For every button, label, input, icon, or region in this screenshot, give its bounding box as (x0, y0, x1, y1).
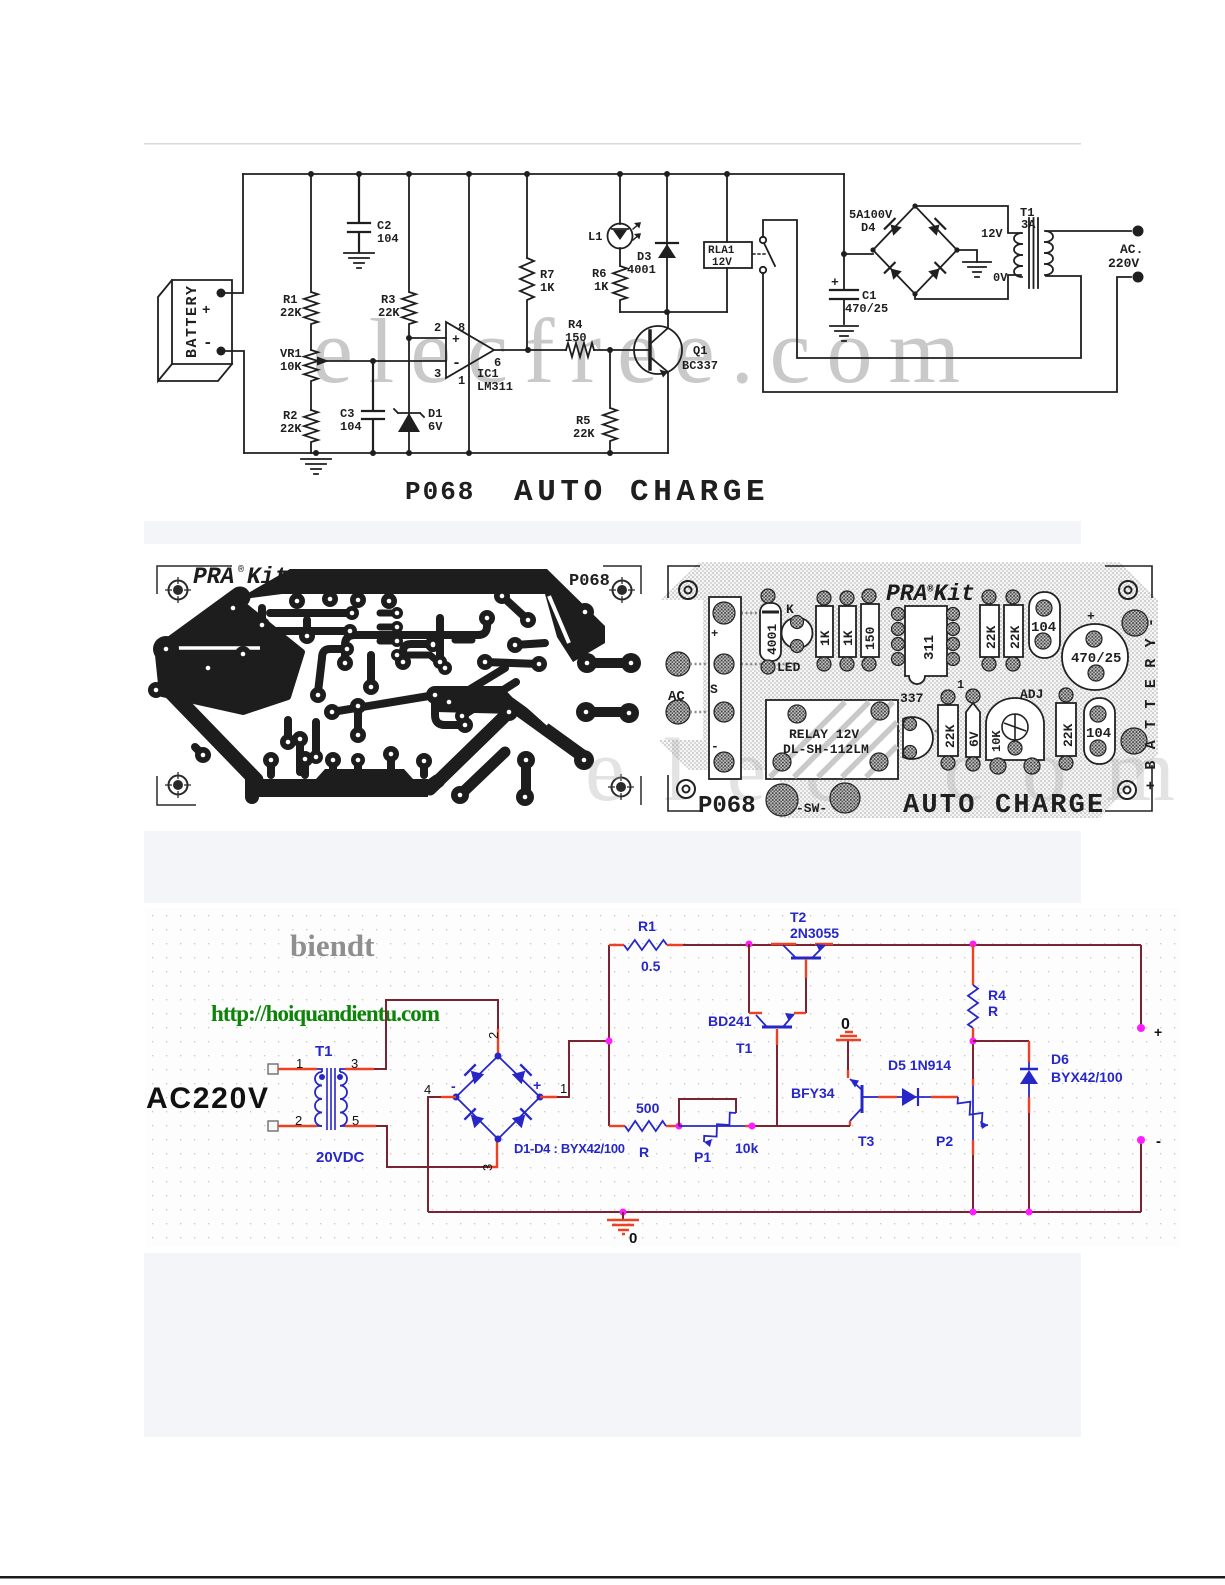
svg-text:BD241: BD241 (708, 1013, 752, 1029)
svg-text:-: - (203, 334, 213, 352)
svg-text:R2: R2 (283, 409, 297, 423)
resistor 1K b (839, 606, 856, 657)
wire pin1 (278, 1068, 317, 1070)
white slot in chevron (549, 596, 569, 643)
svg-text:10k: 10k (735, 1140, 759, 1156)
wire pin2 (278, 1125, 317, 1127)
wire bridge minus to ground rail (441, 1096, 456, 1098)
svg-text:R: R (639, 1144, 649, 1160)
svg-text:LED: LED (777, 660, 801, 675)
connector strip (709, 597, 741, 779)
faint separator line top of scan 1 (144, 143, 1081, 145)
svg-text:BYX42/100: BYX42/100 (1051, 1069, 1123, 1085)
svg-text:DL-SH-112LM: DL-SH-112LM (783, 742, 869, 757)
hatched copper pour (660, 562, 1158, 818)
white clearance line above blob (178, 646, 260, 650)
crosshair rings right PCB (679, 581, 697, 599)
svg-text:AUTO CHARGE: AUTO CHARGE (514, 475, 769, 510)
svg-text:+: + (711, 627, 718, 641)
svg-text:LM311: LM311 (477, 380, 513, 394)
svg-text:RLA1: RLA1 (708, 245, 735, 257)
svg-text:470/25: 470/25 (845, 302, 888, 316)
LED L1 (619, 174, 621, 224)
svg-text:22K: 22K (573, 427, 595, 441)
bottom page border line (0, 1576, 1225, 1579)
svg-text:-SW-: -SW- (796, 801, 827, 816)
wire bridge top to transformer 12V tap (915, 206, 1021, 233)
terminal square pin1 (268, 1064, 278, 1074)
svg-text:1: 1 (458, 374, 465, 388)
wire pin5 to bridge bottom (345, 1125, 376, 1127)
svg-text:D4: D4 (861, 221, 875, 235)
wire bridge plus to node (540, 1096, 557, 1098)
wire switch top to transformer secondary bottom (763, 220, 1081, 358)
svg-text:D1: D1 (428, 407, 442, 421)
capacitor 470/25 (1062, 624, 1128, 690)
copper trace elbows middle (345, 618, 487, 663)
AC pads (666, 652, 690, 676)
dotted grid background (145, 908, 1180, 1247)
svg-text:BATTERY: BATTERY (184, 286, 201, 358)
resistor R6 1K (613, 248, 627, 312)
capacitor C3 104 (362, 361, 384, 453)
svg-text:ADJ: ADJ (1020, 687, 1043, 702)
junction dots on top rail (308, 171, 314, 177)
potentiometer VR1 10K (304, 350, 318, 410)
battery pad top (1122, 610, 1148, 636)
svg-text:+: + (1087, 609, 1095, 624)
svg-text:T2: T2 (790, 909, 807, 925)
relay switch contact (753, 253, 765, 255)
battery (158, 280, 232, 381)
svg-text:5A100V: 5A100V (849, 208, 893, 222)
svg-text:+: + (533, 1077, 541, 1093)
svg-text:®: ® (238, 564, 244, 576)
svg-text:22K: 22K (378, 306, 400, 320)
diode 4001 (760, 603, 781, 661)
ground below C1 (830, 326, 858, 341)
svg-text:220V: 220V (1108, 256, 1139, 271)
diagonal dumbbell top right (502, 596, 528, 620)
svg-text:+: + (202, 303, 210, 319)
resistor R7 1K (520, 174, 534, 350)
svg-text:+BATTERY-: +BATTERY- (1143, 618, 1160, 790)
svg-text:104: 104 (340, 420, 362, 434)
svg-text:R6: R6 (592, 267, 606, 281)
IC pad cluster stubs (380, 613, 397, 641)
gray band between section2 and section3 (144, 831, 1081, 903)
svg-text:+: + (831, 275, 839, 290)
svg-text:VR1: VR1 (280, 347, 302, 361)
svg-text:BFY34: BFY34 (791, 1085, 835, 1101)
Q1 BC337 transistor (634, 326, 682, 374)
resistor R1 0.5 (609, 944, 624, 946)
svg-text:D1-D4 : BYX42/100: D1-D4 : BYX42/100 (514, 1141, 625, 1156)
gray band between section1 and section2 (144, 521, 1081, 544)
diode D3 4001 (666, 174, 668, 312)
svg-text:1K: 1K (594, 280, 609, 294)
resistor R3 22K (402, 174, 416, 338)
capacitor 104 bottom (1084, 698, 1115, 764)
transformer T1 (315, 1068, 347, 1130)
copper trace horizontal y663 (485, 662, 539, 664)
svg-text:P068: P068 (569, 572, 610, 591)
SW pads (766, 784, 798, 816)
svg-text:-: - (1156, 1133, 1161, 1150)
capacitor C2 104 (348, 174, 370, 252)
svg-text:R1: R1 (283, 293, 297, 307)
op-amp IC1 LM311 (446, 322, 494, 378)
svg-text:4001: 4001 (765, 624, 780, 655)
copper left blob (158, 606, 302, 712)
svg-text:PRA: PRA (193, 564, 234, 590)
svg-text:D5 1N914: D5 1N914 (888, 1057, 951, 1073)
bridge rectifier D4 5A100V (873, 206, 957, 294)
svg-text:6V: 6V (428, 420, 443, 434)
svg-text:S: S (710, 682, 718, 697)
IC 311 (905, 606, 947, 684)
bridge rectifier D1-D4 (456, 1056, 540, 1139)
svg-text:150: 150 (863, 626, 878, 650)
junction dots on bottom rail (313, 450, 319, 456)
wire battery minus to bottom rail (221, 351, 244, 453)
capacitor C1 470/25 electrolytic (843, 254, 845, 324)
svg-text:T1: T1 (315, 1043, 333, 1060)
337 transistor (903, 717, 933, 759)
svg-text:3: 3 (480, 1164, 495, 1171)
copper left lower diagonal band (166, 687, 256, 780)
wire R3 to opamp plus input (409, 337, 446, 339)
svg-text:P068: P068 (698, 793, 756, 820)
svg-text:150: 150 (565, 331, 587, 345)
copper bottom band (252, 769, 428, 797)
svg-text:470/25: 470/25 (1071, 651, 1121, 667)
ground below R2 (301, 459, 331, 474)
svg-text:1: 1 (296, 1056, 303, 1071)
svg-text:1K: 1K (841, 630, 856, 646)
copper central right mass (436, 686, 512, 714)
resistor 150 (861, 604, 879, 657)
svg-text:AC: AC (668, 689, 685, 705)
resistor 22K a (980, 605, 999, 657)
trimmer 10K (986, 698, 1044, 760)
svg-text:0: 0 (841, 1016, 850, 1033)
svg-text:AUTO CHARGE: AUTO CHARGE (903, 791, 1105, 821)
battery pad bottom (1121, 728, 1147, 754)
corner brackets right PCB (668, 566, 1152, 811)
svg-text:K: K (786, 602, 794, 617)
svg-text:2: 2 (434, 321, 441, 335)
resistor R1 22K (304, 174, 318, 350)
svg-text:10K: 10K (990, 730, 1004, 752)
svg-text:12V: 12V (712, 257, 732, 269)
svg-text:-: - (451, 1078, 456, 1094)
svg-text:12V: 12V (981, 227, 1003, 241)
svg-text:P1: P1 (694, 1149, 711, 1165)
wire bridge bottom to transformer 0V tap (915, 275, 1021, 299)
svg-text:D3: D3 (637, 250, 651, 264)
svg-text:0V: 0V (993, 271, 1008, 285)
svg-text:500: 500 (636, 1100, 660, 1116)
svg-text:3A: 3A (1021, 218, 1036, 232)
svg-text:1K: 1K (540, 281, 555, 295)
svg-text:R4: R4 (988, 987, 1006, 1003)
svg-text:AC.: AC. (1120, 242, 1143, 257)
svg-text:http://hoiquandientu.com: http://hoiquandientu.com (211, 1001, 440, 1026)
plus output terminal (1140, 945, 1142, 1028)
svg-text:R7: R7 (540, 268, 554, 282)
svg-text:0: 0 (629, 1230, 637, 1247)
svg-text:T1: T1 (736, 1040, 753, 1056)
svg-text:R5: R5 (576, 414, 590, 428)
wire transformer secondary top to AC terminal (1046, 230, 1131, 232)
svg-text:2: 2 (295, 1113, 302, 1128)
svg-text:10K: 10K (280, 360, 302, 374)
wire opamp output to Q1 base (494, 349, 650, 351)
svg-text:1K: 1K (818, 630, 833, 646)
relay coil RLA1 12V (704, 242, 752, 268)
svg-text:104: 104 (377, 232, 399, 246)
right dumbbells (587, 658, 631, 668)
copper pour top band and chevron (236, 569, 605, 662)
svg-text:P068: P068 (405, 477, 475, 507)
svg-text:1: 1 (560, 1081, 567, 1096)
resistor R4 150 (566, 343, 594, 357)
wire battery plus to top rail (221, 174, 243, 293)
top rail section3 (683, 944, 1141, 946)
terminal square pin2 (268, 1121, 278, 1131)
svg-text:22K: 22K (1061, 723, 1076, 747)
resistor 22K b (1004, 605, 1023, 657)
svg-text:C3: C3 (340, 407, 354, 421)
svg-text:6V: 6V (967, 731, 982, 747)
resistor 1K a (816, 606, 833, 657)
left PCB copper layout (157, 566, 641, 805)
relay box (766, 700, 898, 779)
ground right of bridge (957, 250, 977, 262)
main left vertical wire (608, 945, 610, 1126)
capacitor 104 top (1029, 592, 1060, 658)
ground below C2 (344, 253, 374, 268)
svg-text:biendt: biendt (290, 928, 375, 963)
svg-text:4001: 4001 (627, 263, 656, 277)
svg-text:104: 104 (1086, 726, 1111, 742)
bottom rail (244, 452, 668, 454)
svg-text:+: + (1154, 1024, 1162, 1040)
svg-text:-: - (711, 739, 719, 754)
svg-text:-: - (452, 355, 461, 372)
svg-text:P2: P2 (936, 1133, 953, 1149)
svg-text:R4: R4 (568, 318, 582, 332)
svg-text:0.5: 0.5 (641, 958, 661, 974)
svg-text:2N3055: 2N3055 (790, 925, 839, 941)
svg-text:RELAY 12V: RELAY 12V (789, 727, 859, 742)
white slot around pad539 (525, 652, 550, 676)
copper diagonal band band-to-pad509 (430, 712, 509, 789)
center traces (435, 695, 465, 725)
transformer T1 3A (1014, 218, 1053, 288)
svg-text:22K: 22K (280, 422, 302, 436)
svg-text:R3: R3 (381, 293, 395, 307)
resistor R5 22K (603, 350, 617, 453)
gray band below section3 (144, 1253, 1081, 1437)
svg-text:4: 4 (424, 1082, 431, 1097)
copper short diagonal pad460 (460, 752, 505, 795)
corner bracket marks left PCB (157, 566, 641, 805)
svg-text:104: 104 (1031, 620, 1056, 636)
copper band left diagonal to big pad (170, 597, 240, 648)
svg-text:22K: 22K (943, 724, 958, 748)
svg-text:337: 337 (900, 691, 923, 706)
svg-text:L1: L1 (588, 230, 602, 244)
svg-text:BC337: BC337 (682, 359, 718, 373)
svg-text:IC1: IC1 (477, 367, 499, 381)
svg-text:311: 311 (922, 635, 938, 660)
resistor 22K c (938, 705, 958, 756)
svg-text:D6: D6 (1051, 1051, 1069, 1067)
resistor R2 22K (304, 410, 318, 453)
svg-text:R1: R1 (638, 918, 656, 934)
ground 0 bottom (620, 1209, 627, 1216)
resistor 22K d (1056, 703, 1076, 756)
zener 6V (966, 703, 980, 757)
svg-text:8: 8 (458, 321, 465, 335)
svg-text:C1: C1 (862, 289, 876, 303)
svg-text:22K: 22K (1008, 625, 1023, 649)
dotted trace lines (690, 613, 938, 731)
zener D1 6V (408, 338, 410, 453)
svg-text:1: 1 (957, 678, 964, 692)
svg-text:C2: C2 (377, 219, 391, 233)
AC 220V terminals (1133, 226, 1144, 237)
LED circle (782, 618, 813, 649)
minus output terminal (1140, 1140, 1142, 1212)
wire R6/D3/Q1-collector node (620, 311, 727, 313)
ground bottom rail (428, 1211, 1141, 1213)
svg-text:2: 2 (486, 1032, 501, 1039)
svg-text:AC220V: AC220V (146, 1082, 268, 1115)
svg-text:T3: T3 (858, 1133, 875, 1149)
white slot in central mass (528, 706, 548, 724)
crosshair pads left PCB (165, 577, 191, 603)
wire top rail corner down to C1/bridge node (844, 174, 873, 254)
pads left PCB (148, 588, 641, 806)
wire pin3 to bridge top (345, 1068, 374, 1070)
top rail (243, 173, 844, 175)
svg-text:R: R (988, 1003, 998, 1019)
svg-text:3: 3 (434, 367, 441, 381)
svg-text:22K: 22K (280, 306, 302, 320)
svg-text:22K: 22K (984, 625, 999, 649)
svg-text:Q1: Q1 (693, 344, 707, 358)
svg-text:20VDC: 20VDC (316, 1149, 365, 1166)
wire switch bottom to AC terminal (763, 273, 1131, 392)
